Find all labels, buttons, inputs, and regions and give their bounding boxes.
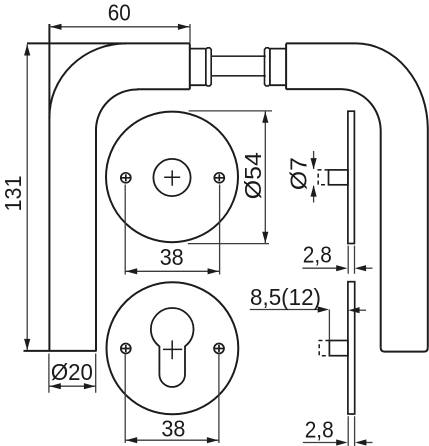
spindle bore circle [153,159,190,196]
arrow O54 up [262,112,268,123]
arrow O7 down [311,158,317,169]
dimension 38 upper: extensions [125,185,219,275]
arrow 60 left [50,24,61,30]
arrow O54 down [262,232,268,243]
lever handle right: outline [286,43,428,351]
grip right edge [95,130,97,351]
screw hole left (upper rosette) [121,173,131,183]
fixing pin upper (solid) [329,170,348,185]
arrow 2,8 upper right [355,265,366,271]
neck outer corner arc [49,43,126,118]
arrow 38 upper right [208,268,219,274]
arrow O20 right [84,383,95,389]
svg-text:60: 60 [108,0,131,26]
dimension O54: extensions [188,111,272,244]
dimension 60: extension right [189,24,191,43]
arrow 2,8 lower left [336,439,347,445]
grip bottom edge + 131 extension [24,350,97,352]
rosette side view upper strip [348,111,355,243]
dimension 2,8 lower: right tail [358,442,372,444]
arrow 131 up [24,44,30,55]
dimension 8,5(12): leader [250,309,326,311]
rosette front view (lower, key) [106,282,238,414]
svg-text:Ø54: Ø54 [240,152,266,199]
screw hole right (lower rosette) [214,344,224,354]
screw hole left (lower rosette) [121,344,131,354]
grip rounded bottom [381,348,428,352]
dimension 8,5(12): drop line [328,310,330,341]
fixing pin lower (solid) [329,341,348,356]
collar left [190,49,206,86]
arrow 131 down [24,339,30,350]
arrow O20 left [50,383,61,389]
neck end face [189,43,191,89]
spindle [211,56,266,76]
neck inner corner arc [96,89,137,130]
arrow 8,5 right [348,307,359,313]
svg-text:38: 38 [161,416,185,442]
arrow 8,5 leader [318,306,329,312]
wire top edge + 131 extension [27,42,190,44]
flange disc left [206,48,211,86]
flange disc right [265,48,270,86]
svg-text:38: 38 [160,244,184,270]
dimension O54: line [264,112,266,244]
arrow 38 upper left [126,268,137,274]
dimension O20: extensions [49,354,96,393]
dimension 2,8 upper: extension lines [348,246,354,274]
fixing pin lower hidden part (dashed) [319,341,329,356]
neck bottom edge right [286,88,341,90]
svg-text:8,5(12): 8,5(12) [250,284,321,310]
dimension 8,5(12): right tail [352,309,367,311]
neck end face right [285,43,287,89]
dimension 60: line [49,26,190,28]
arrow 38 lower right [207,437,218,443]
dimension O20: line [49,385,96,387]
rosette front view (upper, lever) [106,112,238,243]
spindle centre cross [164,170,180,185]
grip right side edge [427,130,429,348]
wire left edge + 60 extension [48,24,50,351]
svg-text:2,8: 2,8 [303,242,332,268]
euro profile cylinder hole [151,308,194,387]
dimension 38 lower: line [125,439,219,441]
arrowheads [24,24,366,446]
fixing pin upper hidden part (dashed) [318,170,328,185]
dimension 2,8 lower: leader [303,442,344,444]
screw hole right (upper rosette) [214,173,224,183]
arrow 2,8 lower right [355,439,366,445]
svg-text:131: 131 [0,176,26,212]
dimension 2,8 upper: right tail [358,267,373,269]
rosette side view lower strip [348,282,355,414]
arrow 60 right [178,24,189,30]
key rosette centre cross [163,340,182,359]
svg-text:Ø7: Ø7 [285,157,311,190]
dimension 38 lower: extensions [125,355,219,444]
dimension 2,8 upper: leader [302,267,344,269]
dimension 2,8 lower: extension lines [348,416,354,446]
grip left side edge [380,131,382,348]
dimension 131: line [26,45,28,351]
arrow O7 up [311,185,317,196]
outer corner arc right [356,43,428,129]
collar right [270,49,286,86]
dimension O7: lines [313,151,315,203]
svg-text:Ø20: Ø20 [51,359,93,385]
lever handle left: outline [24,24,191,351]
wire top edge right [286,42,356,44]
neck bottom edge [137,88,190,90]
inner corner arc right [341,89,381,131]
dimension 38 upper: line [125,270,219,272]
svg-text:2,8: 2,8 [305,417,334,443]
arrow 38 lower left [126,437,137,443]
arrow 2,8 upper left [336,265,347,271]
